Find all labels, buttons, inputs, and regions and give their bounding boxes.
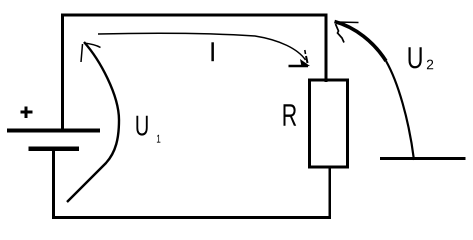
voltage arrow U1 shaft bbox=[67, 42, 119, 202]
label I bbox=[211, 42, 214, 61]
label U1 bbox=[136, 116, 147, 136]
wire battery bottom bbox=[52, 151, 55, 220]
label U2 bbox=[409, 47, 422, 68]
current arrow I head bbox=[289, 50, 311, 67]
wire right lower bbox=[328, 166, 331, 216]
battery plus label bbox=[21, 106, 33, 118]
wire bottom bbox=[52, 216, 331, 219]
wire left bbox=[61, 14, 64, 131]
label R bbox=[284, 104, 297, 126]
battery V1 negative plate bbox=[29, 147, 80, 151]
current arrow I shaft bbox=[98, 33, 306, 60]
reference line (U2 measurement baseline) bbox=[380, 157, 466, 160]
voltage arrow U1 head bbox=[81, 43, 101, 62]
voltage arrow U2 head bbox=[336, 22, 359, 43]
label U1 subscript 1 bbox=[157, 135, 161, 143]
voltage arrow U2 shaft bbox=[335, 22, 415, 161]
wire top bbox=[61, 13, 328, 16]
label U2 subscript 2 bbox=[427, 60, 433, 70]
resistor R body bbox=[310, 80, 348, 167]
wire right upper bbox=[325, 14, 328, 83]
battery V1 positive plate bbox=[7, 129, 100, 133]
